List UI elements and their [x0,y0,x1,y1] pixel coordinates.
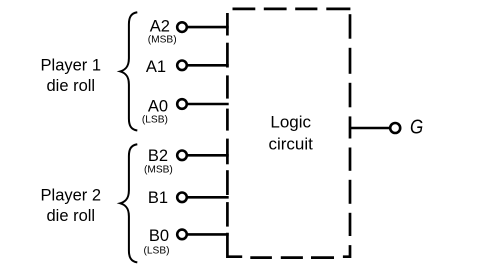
svg-text:die roll: die roll [46,77,95,95]
wire B2 [188,154,229,157]
wire A1 [188,64,229,67]
svg-text:Player 1: Player 1 [41,56,102,74]
svg-text:Player 2: Player 2 [41,186,102,204]
logic circuit dashed box : bottom-left corner [227,233,242,257]
terminal circle A0 [177,99,187,109]
terminal circle A1 [177,61,187,71]
terminal circle B1 [177,193,187,203]
brace for Player 1 inputs [120,12,137,130]
svg-text:(LSB): (LSB) [142,114,168,125]
terminal circle B0 [177,230,187,240]
terminal circle A2 [177,22,187,32]
logic circuit dashed box : bottom-right corner [343,245,350,257]
svg-text:B2: B2 [148,147,168,165]
logic circuit dashed box : top edge [233,8,351,11]
output wire G [350,127,389,130]
svg-text:G: G [410,115,423,138]
terminal circle B2 [177,151,187,161]
logic circuit dashed box : left edge [226,13,229,227]
svg-text:A2: A2 [150,17,170,35]
svg-text:circuit: circuit [268,135,313,154]
svg-text:A1: A1 [146,58,166,76]
svg-text:(MSB): (MSB) [144,165,173,176]
wire B1 [188,196,229,199]
svg-text:(LSB): (LSB) [143,246,169,257]
wire B0 [188,233,229,236]
brace for Player 2 inputs [120,144,137,262]
svg-text:A0: A0 [148,97,168,115]
logic circuit dashed box : bottom edge [250,256,334,259]
output terminal circle [390,123,400,133]
svg-text:B1: B1 [148,189,168,207]
wire A2 [188,26,229,29]
svg-text:B0: B0 [149,227,169,245]
logic circuit dashed box : right edge [349,14,352,236]
svg-text:die roll: die roll [46,207,95,225]
svg-text:Logic: Logic [270,113,311,132]
wire A0 [188,103,229,106]
svg-text:(MSB): (MSB) [148,34,177,45]
